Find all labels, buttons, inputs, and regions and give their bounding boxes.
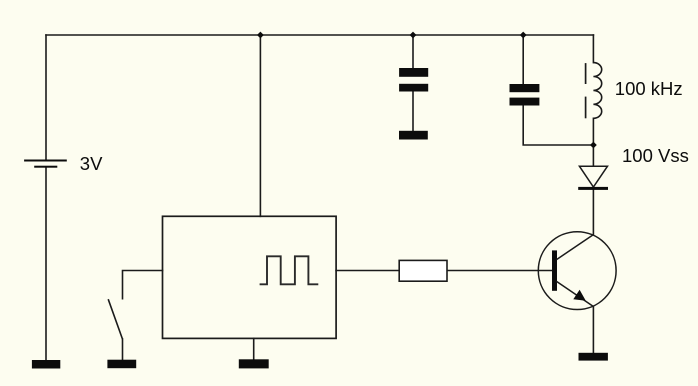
ground IC bbox=[239, 359, 269, 368]
wire battery negative lead to ground bbox=[45, 168, 47, 360]
wire top horizontal rail bbox=[46, 34, 593, 36]
wire inductor top lead bbox=[592, 35, 594, 63]
wire IC left pin to switch bbox=[123, 271, 163, 299]
ground transistor bbox=[579, 353, 608, 361]
wire battery positive lead bbox=[45, 35, 47, 160]
transistor Q1 emitter line bbox=[557, 281, 594, 306]
svg-text:3V: 3V bbox=[80, 153, 103, 174]
svg-text:100 kHz: 100 kHz bbox=[615, 78, 683, 99]
node junction top-C2 bbox=[520, 32, 527, 39]
wire transistor emitter to ground bbox=[592, 307, 594, 353]
ground switch bbox=[107, 360, 136, 369]
transistor Q1 base bar bbox=[552, 250, 557, 290]
diode D1 bbox=[578, 166, 608, 190]
node junction diode-tank bbox=[590, 142, 597, 149]
resistor R1 bbox=[399, 260, 447, 281]
transistor Q1 collector line bbox=[557, 235, 594, 260]
capacitor C1 bbox=[399, 68, 428, 92]
wire switch bottom stub bbox=[122, 339, 124, 360]
wire C1 bottom lead to ground bbox=[412, 92, 414, 131]
svg-text:100 Vss: 100 Vss bbox=[622, 145, 689, 166]
wire inductor bottom to diode bbox=[592, 118, 594, 166]
wire C2 top lead bbox=[522, 35, 524, 84]
IC square-wave glyph bbox=[260, 256, 319, 284]
ground C1 bbox=[399, 131, 428, 140]
wire resistor to transistor base bbox=[447, 270, 552, 272]
wire C2 bottom lead bbox=[523, 106, 593, 146]
wire IC supply drop bbox=[259, 35, 261, 216]
inductor L1 core dashes bbox=[585, 63, 587, 118]
capacitor C2 bbox=[510, 84, 540, 106]
transistor Q1 circle bbox=[538, 232, 616, 310]
wire diode cathode to transistor collector bbox=[592, 190, 594, 235]
switch S1 blade bbox=[108, 299, 122, 339]
inductor L1 coil bbox=[593, 63, 601, 119]
IC U1 box bbox=[163, 216, 337, 338]
wire C1 top lead bbox=[412, 35, 414, 68]
wire IC output to resistor bbox=[336, 270, 399, 272]
wire IC ground stem bbox=[253, 338, 255, 359]
battery B1 3V bbox=[24, 160, 67, 168]
transistor Q1 emitter arrow bbox=[573, 290, 586, 301]
node junction top-IC bbox=[257, 32, 264, 39]
node junction top-C1 bbox=[410, 32, 417, 39]
ground battery bbox=[32, 360, 60, 369]
